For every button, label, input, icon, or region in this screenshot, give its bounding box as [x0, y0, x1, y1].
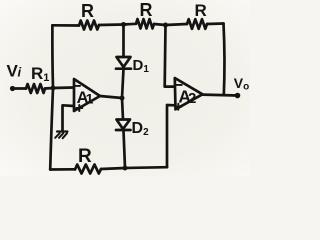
svg-text:R: R: [81, 1, 94, 21]
svg-text:2: 2: [188, 90, 196, 107]
svg-text:R: R: [78, 146, 92, 167]
svg-text:1: 1: [86, 91, 94, 107]
svg-text:i: i: [18, 65, 22, 80]
svg-text:R: R: [195, 1, 207, 20]
svg-text:R: R: [140, 0, 153, 20]
